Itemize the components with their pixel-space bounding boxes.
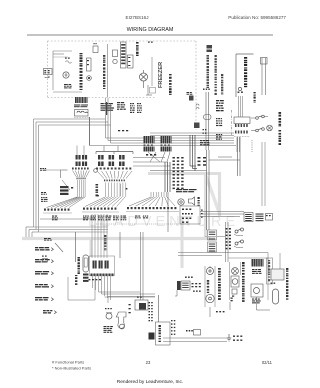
wire third cluster drops: [151, 192, 167, 197]
harness callout label 3: [35, 271, 53, 275]
ground symbol: [227, 334, 231, 341]
wire slant feed: [55, 243, 63, 252]
wire gray highlight vertical run B: [218, 172, 221, 216]
left cluster contact pair 2: [82, 155, 87, 166]
tiny row left lower: [89, 279, 101, 280]
sensor cluster right 2: [216, 118, 222, 126]
alarm speaker symbol: [189, 197, 195, 205]
door switch box right: [261, 58, 268, 65]
svg-text:* Non-Illustrated Parts: * Non-Illustrated Parts: [52, 366, 91, 371]
door harness label column: [226, 228, 231, 249]
freezer door dashed outline top: [48, 40, 197, 42]
capacitor label rows: [252, 299, 261, 304]
watermark LeadVenture wordmark: [88, 214, 239, 230]
harness callout label 6: [43, 310, 56, 314]
door switch symbol 1: [251, 115, 268, 119]
harness callout label 1: [35, 247, 53, 251]
dispenser component box: [87, 58, 92, 71]
header rule: [27, 34, 273, 36]
start relay box: [135, 300, 148, 310]
fresh food section line: [178, 253, 268, 276]
dispenser tiny rows: [64, 84, 72, 88]
wire drop compressor feed: [167, 192, 169, 232]
door switch symbol 2: [251, 128, 264, 132]
wire valve bend right: [99, 292, 156, 297]
wire compressor top link: [108, 297, 155, 304]
connector pair block B: [161, 136, 172, 152]
ground wire labels: [233, 336, 242, 341]
terminal grid B: [117, 102, 126, 110]
fresh food tick rows: [231, 298, 233, 302]
evap bottom bits: [216, 311, 225, 312]
dispenser board vertical label: [80, 53, 83, 90]
switch bank bracket bar: [96, 152, 133, 155]
vertical label column sensor 1: [207, 55, 210, 88]
wire bus bend 3: [39, 103, 235, 143]
wire harness vertical pair 1: [164, 162, 166, 192]
water valve coil 2: [99, 261, 110, 269]
header model number text: [126, 15, 149, 20]
wire freezer lamp lead down: [143, 81, 145, 88]
heater label rows: [252, 269, 262, 274]
vertical label column sensor 2: [215, 55, 217, 95]
wire block feeds: [239, 96, 243, 117]
water valve terminal rows: [83, 274, 89, 282]
wire mid horizontal 2: [133, 161, 168, 163]
compressor terminal labels: [149, 302, 153, 321]
curly pins mid: [187, 92, 200, 109]
relay top marks: [137, 297, 142, 298]
vertical label left lower: [75, 275, 77, 285]
door top connector box: [93, 43, 98, 53]
connector lower right A: [244, 213, 253, 222]
connector fan-out upper: [97, 171, 132, 179]
wire compressor drop: [158, 295, 160, 322]
wire bank feed up 1: [103, 146, 105, 152]
wire bracket top right vertical: [235, 54, 237, 97]
wire mid horizontal lower: [96, 223, 190, 225]
compressor box outline: [156, 322, 171, 345]
footer date code: [262, 360, 273, 365]
left tiny text: [40, 168, 46, 171]
wire bend top right 1: [237, 137, 239, 176]
connector block right outline: [234, 117, 250, 124]
dispenser motor circle: [87, 76, 92, 81]
wire cabinet outline vertical 3: [38, 125, 40, 232]
wire door harness pair: [206, 92, 209, 150]
evap channel top connector: [208, 230, 217, 252]
wire cabinet outline vertical 2: [35, 122, 37, 230]
third cluster lower fan: [129, 197, 175, 206]
wire ground run 2: [163, 341, 227, 343]
wire nested bend row 3: [39, 231, 109, 233]
evap channel rails: [205, 266, 215, 307]
wire freezer section vertical: [146, 85, 152, 95]
freezer door dashed outline right: [195, 41, 197, 130]
water label box: [44, 69, 53, 75]
terminal grid A: [101, 102, 115, 115]
right cluster lower fan: [85, 197, 125, 207]
wire corner join: [209, 157, 240, 160]
freezer lamp: [140, 73, 148, 81]
fresh food channel rails: [230, 262, 241, 300]
wire gray highlight horizontal run top: [148, 172, 219, 175]
door inner bracket: [53, 51, 82, 92]
wire nested bend row 1: [34, 226, 109, 228]
heater hatched block: [252, 259, 264, 267]
connector block right pins row 1: [235, 124, 248, 127]
small switch component: [94, 169, 98, 173]
footer functional parts note: [52, 360, 84, 365]
wire main drop from plug: [89, 117, 91, 146]
overload relay shape: [116, 312, 126, 329]
wire left cluster drops: [78, 180, 86, 197]
ice maker lower box: [128, 55, 134, 68]
water label arrow: [45, 76, 50, 78]
dispenser lamp: [63, 72, 69, 78]
connector J1 terminal labels: [74, 105, 88, 108]
door harness oval: [204, 115, 212, 120]
wire freezer mid vertical: [151, 57, 153, 86]
right pill component: [273, 289, 279, 304]
water valve top label: [104, 235, 106, 251]
connector 4wire label right: [192, 283, 201, 292]
vertical label column freezer switch: [169, 74, 172, 95]
water valve assembly box: [90, 256, 115, 276]
wire evap feeds: [226, 222, 229, 262]
freezer door dashed outline left: [47, 41, 49, 98]
connector 4wire label top: [185, 277, 193, 278]
connector fan-out tick row: [104, 180, 125, 182]
svg-text:Rendered by LeadVenture, Inc.: Rendered by LeadVenture, Inc.: [117, 379, 183, 385]
wire lower horizontals: [40, 218, 96, 220]
wire bus bend 1: [34, 98, 235, 138]
door right vertical wire: [107, 44, 109, 98]
svg-text:EI27BS16J: EI27BS16J: [126, 15, 149, 20]
door harness marks: [203, 129, 207, 134]
freezer light switch box: [150, 88, 156, 94]
left cluster connector row: [43, 209, 72, 214]
watermark N diagonal: [206, 176, 219, 212]
connector 4wire block: [181, 281, 190, 290]
water tank vertical label: [78, 257, 80, 274]
wire bend down to gray bus 1: [26, 227, 34, 237]
wire long drop 1: [141, 232, 144, 300]
freezer door dashed outline bottom: [48, 97, 156, 99]
vertical label column door 2: [279, 130, 282, 145]
wire gray highlight vertical run D: [90, 238, 93, 257]
wire valve drops: [93, 276, 111, 300]
vertical label column door 1: [279, 112, 282, 127]
harness callout label 5: [35, 297, 53, 301]
wire long drop 2: [119, 232, 121, 258]
sensor cluster right 3: [216, 134, 222, 140]
left cluster contact pair 1: [76, 155, 81, 166]
wire cabinet outline vertical 1: [33, 119, 35, 227]
wire ground run 1: [163, 337, 227, 339]
wire compartment link right: [200, 212, 244, 217]
door harness top label: [203, 89, 210, 90]
switch bank contact pair 3: [119, 155, 125, 166]
wire freezer lamp lead up: [143, 70, 145, 73]
wire bus bend 2: [36, 98, 234, 141]
compressor dark blob: [149, 333, 155, 340]
connector pair block A: [144, 136, 155, 152]
aux circle: [238, 87, 241, 90]
run capacitor circle: [105, 308, 112, 319]
compartment text block: [176, 189, 197, 192]
wire nested bend row 2: [36, 229, 108, 231]
wire harness vertical pair 3: [169, 162, 171, 192]
harness callout label 4: [35, 284, 53, 288]
connector 4wire dark pin: [177, 281, 181, 290]
water valve coil 1: [93, 261, 98, 269]
FREEZER vertical label: [158, 62, 164, 88]
right cluster connector row: [82, 208, 119, 213]
wire left cluster feeds: [77, 146, 84, 156]
wire bracket top right horizontal: [236, 53, 254, 55]
left cluster tick row: [77, 178, 86, 180]
left cluster label row: [72, 168, 89, 170]
door switch lower 1: [234, 228, 244, 236]
sensor cluster right: [216, 100, 224, 111]
harness labels column right: [198, 157, 207, 166]
lower label band: [52, 216, 148, 221]
left cluster fan: [73, 171, 90, 178]
evap channel vertical label: [207, 280, 209, 293]
wire right pair vertical 2: [265, 58, 267, 95]
wire harness bundle right 1: [190, 135, 196, 166]
wire mid horizontal 3: [133, 165, 170, 167]
wire right edge drop: [279, 253, 281, 275]
wire bend down to gray bus 3: [32, 232, 39, 237]
wire right pair vertical 1: [261, 58, 263, 95]
ground label GRN: [146, 154, 156, 156]
svg-text:WIRING DIAGRAM: WIRING DIAGRAM: [127, 27, 174, 33]
plug P1 dotted row: [74, 117, 90, 119]
thermistor label blob: [207, 45, 213, 52]
connector J1 hatched block: [75, 97, 88, 103]
left cluster lower fan: [47, 197, 86, 208]
footer page number: [146, 360, 151, 365]
compartment bottom labels: [182, 209, 193, 223]
wire bus upper pair 1: [150, 132, 234, 134]
wire mid horizontal 1: [133, 157, 165, 159]
evap motor circle top: [207, 266, 214, 275]
fresh food vertical label: [242, 262, 245, 302]
evap lamp circle bottom: [206, 294, 214, 302]
vertical label column ice maker: [136, 42, 139, 56]
connector lower right C box: [266, 214, 273, 221]
switch bank label row: [96, 168, 131, 170]
right module box: [271, 269, 284, 280]
switch bank contact pair 1: [98, 155, 104, 166]
capacitor box: [251, 284, 263, 297]
aux component dark: [189, 96, 194, 101]
wire 4wire bend: [175, 290, 177, 296]
connector block right pins row 2: [235, 131, 248, 134]
footer rendered by line: [117, 379, 183, 385]
wire valve feeds down: [92, 214, 107, 258]
vertical label harness code: [96, 184, 99, 196]
freezer top tiny marks: [148, 42, 153, 43]
ice maker small box: [113, 50, 118, 57]
wire crossover diagonals: [148, 152, 170, 162]
header publication number text: [228, 15, 286, 20]
fresh food door dash-dot: [231, 110, 233, 136]
aux tiny text: [238, 92, 243, 93]
condenser fan motor circles: [178, 199, 184, 205]
callout tiny component: [42, 256, 48, 263]
wire bus bend 4: [90, 145, 237, 147]
water tank capsule: [83, 255, 89, 272]
wire compartment vertical pair: [207, 150, 210, 230]
vertical label column sensor 3: [221, 74, 223, 95]
left bracket component: [44, 170, 70, 190]
connector block right dotted: [234, 136, 250, 138]
svg-text:# Functional Parts: # Functional Parts: [52, 360, 84, 365]
wire bend down to gray bus 2: [29, 230, 36, 238]
wire bend top right 2: [239, 137, 241, 176]
defrost tall box: [267, 258, 273, 284]
wire gray highlight vertical run A: [204, 174, 207, 238]
wire harness bundle right 2: [193, 135, 198, 169]
wire block bottom pair: [237, 137, 240, 152]
wire bus drop right 1: [261, 142, 263, 206]
switch bank contact pair 2: [109, 155, 115, 166]
connector lower right B: [256, 214, 264, 222]
svg-text:23: 23: [146, 360, 151, 365]
bottom connector bits: [186, 330, 201, 336]
terminal strip stack: [60, 186, 69, 195]
harness wire labels column: [173, 157, 184, 189]
wire compartment horizontal: [150, 170, 207, 172]
door switch lower 2: [234, 240, 244, 248]
wire fanout drops: [106, 183, 126, 198]
terminal grid C: [130, 103, 142, 113]
wire dash drop: [251, 140, 253, 152]
text cluster bottom: [200, 140, 209, 145]
evap mid vertical label: [218, 268, 221, 300]
svg-text:FREEZER: FREEZER: [158, 62, 164, 88]
wire bank feed up 2: [117, 146, 119, 152]
ice maker tall connector: [121, 42, 127, 68]
third cluster connector row: [126, 207, 179, 212]
board component AD: [198, 197, 200, 206]
svg-text:02/11: 02/11: [262, 360, 273, 365]
vertical label column ice water dispenser: [244, 57, 247, 87]
svg-text:Publication No: 5995586277: Publication No: 5995586277: [228, 15, 286, 20]
wire bracket lower left: [68, 277, 95, 300]
door right vertical label: [103, 55, 105, 89]
fresh food lamp upper: [232, 268, 239, 275]
wire harness bundle right 3: [194, 135, 196, 171]
right text column far: [286, 268, 288, 300]
door ajar motor: [267, 125, 273, 131]
dispenser squiggle component: [65, 58, 72, 64]
fresh food small box: [232, 289, 237, 297]
wire bus upper pair 2: [150, 135, 234, 137]
wire bus tiny label: [118, 130, 128, 131]
ice maker motor circle: [113, 59, 117, 63]
wire harness vertical pair 2: [167, 162, 169, 192]
compressor side ticks: [171, 320, 175, 335]
water valve terminal strip: [91, 274, 115, 277]
compressor vertical label: [159, 325, 161, 342]
wire down left A: [75, 232, 77, 262]
callout small text top: [44, 238, 52, 241]
tiny grid left: [41, 192, 48, 202]
wire bus drop right 2: [264, 142, 266, 206]
aux small column: [254, 92, 256, 103]
wire gray highlight horizontal run: [22, 237, 210, 240]
capacitor label below: [104, 326, 113, 333]
right module bits: [271, 283, 276, 284]
plug P1 outline: [75, 110, 89, 117]
wire gray highlight vertical run C: [181, 216, 184, 268]
header title WIRING DIAGRAM: [127, 27, 174, 33]
overload side labels: [129, 304, 131, 313]
wire evap drop bottom: [210, 302, 230, 317]
harness callout label 2: [35, 259, 53, 263]
fresh food lamp socket: [231, 276, 239, 287]
dark box component: [194, 123, 200, 129]
compartment bottom box: [180, 206, 200, 224]
wire thin gray extension: [205, 236, 225, 238]
wire right bottom link: [257, 297, 271, 310]
footer non-illustrated note: [52, 366, 91, 371]
mid label bits: [71, 184, 127, 196]
compartment box side ticks: [201, 210, 203, 218]
fresh food box outline: [229, 258, 269, 300]
